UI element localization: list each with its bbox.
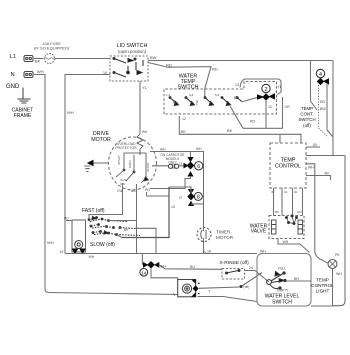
temp control right stub PK to light [306,164,328,263]
wire fast row to bus riser [109,220,137,222]
svg-text:18: 18 [207,250,211,254]
wire step up into node 8 [169,187,191,193]
svg-text:6: 6 [197,164,200,170]
wire timer motor to bus [204,204,207,254]
svg-text:CW: CW [117,189,123,193]
drive motor M1 label [91,131,111,143]
svg-text:LIGHT: LIGHT [316,289,330,294]
wire stub down to node 6 [190,152,192,158]
lamp labels [335,253,342,276]
wire lamp down to bottom [332,269,334,307]
svg-text:OR: OR [285,105,291,109]
water level switch label [265,294,300,306]
svg-text:(open position): (open position) [118,49,147,54]
water temp switch contacts [169,97,242,106]
motor internal windings [116,153,149,183]
temp control bottom pins to water valve [274,188,303,216]
svg-text:START: START [146,162,150,172]
svg-text:WH: WH [196,147,202,151]
fast switch label [82,208,105,214]
water temp switch box [164,82,277,115]
svg-text:ONLY: ONLY [168,161,177,165]
svg-text:50: 50 [313,143,317,147]
x-rinse switch box [222,269,245,280]
svg-text:GND: GND [6,84,20,90]
slow switch label [90,242,115,248]
connector P1 (L1 terminal) [24,56,33,62]
node N [11,72,15,78]
node 8 circled [194,192,202,200]
motor winding labels [117,155,150,186]
fast switch contacts [88,217,128,222]
x-rinse contacts [226,270,241,275]
svg-text:(off): (off) [303,123,311,128]
ground symbol [18,88,31,104]
wire x169 riser down to slow row [122,187,175,238]
svg-text:2: 2 [264,87,267,93]
wire x-rinse to water level switch [245,266,270,282]
svg-text:RD: RD [145,188,151,192]
svg-text:BU: BU [190,265,195,269]
junction node 2 diamond [258,94,275,100]
junction node 6 diamond arrows [184,158,194,177]
capacitor note [161,153,186,165]
wire bottom right connecting line [311,305,333,307]
svg-text:WH: WH [308,166,314,170]
node 4 circled [316,69,324,78]
svg-text:SWITCH: SWITCH [272,300,292,306]
svg-text:WH: WH [336,272,342,276]
timer motor label [216,230,234,241]
capacitor C1 (on capacitor models only) [168,164,178,169]
svg-text:PK: PK [335,253,340,257]
lid switch pin label 16 [103,71,107,75]
junction node 8 diamond arrows [188,190,194,206]
svg-text:14: 14 [141,271,147,276]
node 2 circled [262,84,270,93]
wire middle row riser to bus [135,228,156,253]
temp control right stub 50 [306,143,320,147]
lid switch S1 label [117,43,148,54]
svg-text:8: 8 [197,195,200,201]
temp control label [275,158,301,170]
temp control light label [311,278,334,294]
wire bottom line to water level switch corner [198,297,258,302]
wire L1 to fuse, label BK [34,59,44,64]
svg-text:12: 12 [268,105,272,109]
svg-text:52: 52 [179,196,183,200]
wire bus to x-rinse branch [142,254,222,270]
middle contact row [90,224,135,229]
wire node 2 down pin 12 [266,100,272,128]
motor start winding box (bottom left) [72,220,86,252]
water valve terminal cluster [285,215,297,225]
svg-text:L1: L1 [10,54,16,60]
wire motor RD exit to step [145,188,169,196]
wire water temp switch diagonal RD [230,106,256,128]
svg-text:RD: RD [212,67,218,72]
wire temp control top entry [279,134,281,143]
wire slow row to x169 riser [117,228,130,238]
water valve label [250,224,268,235]
svg-text:N: N [11,72,15,78]
svg-text:FAST (off): FAST (off) [82,208,105,214]
svg-text:RD: RD [320,100,326,104]
temp cont switch label [298,106,315,128]
svg-text:SWITCH: SWITCH [178,85,199,91]
svg-text:FRAME: FRAME [14,113,32,119]
svg-text:BK: BK [172,100,176,104]
temp control light lamp [328,260,337,269]
svg-text:40: 40 [294,190,298,194]
svg-text:PROTECTOR: PROTECTOR [115,146,137,150]
wire motor BA down to middle row [131,184,137,254]
wire node 4 right arm down [327,84,333,137]
wire water temp switch to BK mid line [227,128,283,133]
svg-text:WH: WH [142,130,148,134]
wire from water temp switch to node 2 [243,98,257,102]
wire capacitor to node 6 [179,162,184,166]
svg-text:(off): (off) [244,285,250,289]
water valve box [269,216,304,239]
junction node 14 arrows [144,262,159,268]
svg-text:10: 10 [171,205,175,209]
wire pin 13 over box top [240,79,281,95]
water level switch contacts [267,272,287,290]
svg-text:YL: YL [278,85,282,89]
svg-text:30: 30 [271,190,275,194]
svg-text:24: 24 [249,266,253,270]
svg-text:4M: 4M [324,172,329,176]
wire lid switch RD output sloped [148,63,218,97]
svg-text:BK: BK [35,59,41,64]
wire T line to water level switch [199,287,240,294]
wire motor right to capacitor [152,165,168,167]
overload protector label [115,142,137,150]
drive motor dashed circle [109,137,157,190]
svg-text:TEMP: TEMP [301,106,313,111]
spin switch off contact [240,273,262,290]
svg-text:MAIN: MAIN [128,161,132,169]
svg-text:BK: BK [227,128,233,133]
svg-text:1-4: 1-4 [166,93,171,97]
wire RD stub into temp cont switch [311,61,318,111]
top bus corner down right side [332,61,334,156]
wire water level switch output [286,280,311,282]
svg-text:BR: BR [294,277,299,281]
fuse label [34,41,70,51]
svg-text:YL: YL [142,85,148,90]
connector P2 (N terminal) [24,72,33,78]
timer motor circle [197,228,211,242]
wire lid switch BW output top bus [148,55,333,61]
wire fuse to lid switch [55,58,110,60]
temp control pin labels [271,190,302,214]
main bottom bus WH [60,250,267,260]
water temp switch S2 label [178,74,199,91]
svg-text:VALVE: VALVE [251,229,267,235]
svg-text:CONTROL: CONTROL [311,283,334,288]
svg-text:EMPTY: EMPTY [277,289,289,293]
node 6 circled [195,162,203,171]
svg-text:CONTROL: CONTROL [275,164,301,170]
temp control box [270,143,306,188]
svg-text:START: START [117,155,121,165]
fast switch RD input [64,217,72,221]
fuse F1 10A [44,54,56,64]
junction arrows right of box [191,280,199,297]
svg-text:WH: WH [47,240,54,245]
temp cont switch dotted actuator [319,85,328,136]
water valve solenoid coils [272,220,303,234]
wire WH runner top [150,147,204,204]
agitate solenoid symbol [182,284,191,293]
overload protector zigzag [137,130,148,153]
svg-text:RD: RD [64,217,69,221]
lid switch contacts [113,58,143,78]
svg-text:4-6: 4-6 [189,93,194,97]
wire node 8 to timer feed [179,196,204,205]
svg-text:MOTOR: MOTOR [216,235,234,240]
wire motor CW down to fast row [89,183,123,219]
wire water temp switch BK bottom left [179,116,301,143]
svg-text:SWITCH: SWITCH [298,117,315,122]
wire YL from lid switch down to motor [140,81,148,134]
water level switch rounded box [257,254,311,307]
svg-text:18: 18 [179,162,183,166]
svg-text:WH: WH [160,265,166,269]
svg-text:RD: RD [166,63,172,68]
water temp switch pin labels [166,83,239,121]
svg-text:(IF SO EQUIPPED): (IF SO EQUIPPED) [34,46,70,51]
svg-text:12: 12 [182,117,186,121]
svg-text:WH: WH [67,110,74,115]
svg-text:BU: BU [234,96,239,100]
svg-text:16: 16 [60,250,64,254]
motor frame ground [84,161,108,172]
svg-text:RD: RD [250,120,256,124]
lid switch S1 box [110,56,148,81]
svg-text:CONT.: CONT. [300,112,313,117]
svg-text:FULL: FULL [278,267,286,271]
svg-text:TEMP: TEMP [316,278,329,283]
svg-text:X-RINSE (off): X-RINSE (off) [220,260,250,266]
wire N WH down left side [34,69,178,295]
svg-text:WH: WH [160,148,166,152]
svg-text:WH: WH [260,250,266,254]
svg-text:TIMER: TIMER [216,230,231,235]
svg-text:SLOW (off): SLOW (off) [90,242,115,248]
svg-text:MOTOR: MOTOR [91,137,111,143]
svg-text:BW: BW [320,107,326,111]
ground GND [6,84,20,90]
svg-text:BW: BW [150,55,157,60]
node 14 circled [140,268,148,276]
wire water valve WH return [278,239,310,253]
water level switch pin labels [277,267,299,293]
svg-text:13: 13 [235,83,239,87]
wire YL/OR from RD line into node 2 [278,85,291,128]
temp control right stub to BW bus [306,155,345,157]
node L1 [10,54,16,60]
cabinet frame label [12,108,34,120]
svg-text:BK: BK [181,129,187,134]
slow switch contacts [92,231,140,236]
svg-text:BU: BU [275,210,279,214]
junction node 4 diamond [318,79,329,85]
svg-text:41: 41 [284,190,288,194]
wire node 6 lower branch to motor [150,176,191,189]
svg-text:WH: WH [37,69,44,74]
start capacitor symbol circled [75,241,83,249]
x-rinse switch label [220,260,250,266]
right outer bus [333,156,345,306]
agitate solenoid box [173,280,196,297]
svg-text:WH: WH [195,100,199,105]
svg-text:WH: WH [283,240,289,244]
temp control stub y175 [306,172,331,181]
svg-text:4: 4 [319,72,322,78]
svg-text:5-6: 5-6 [215,93,220,97]
svg-text:WH: WH [89,255,95,259]
wire lid switch left pin to WH drop x65 [65,75,110,254]
wire branch down to agitate box [151,268,178,280]
junction arrows below start box [73,249,85,253]
